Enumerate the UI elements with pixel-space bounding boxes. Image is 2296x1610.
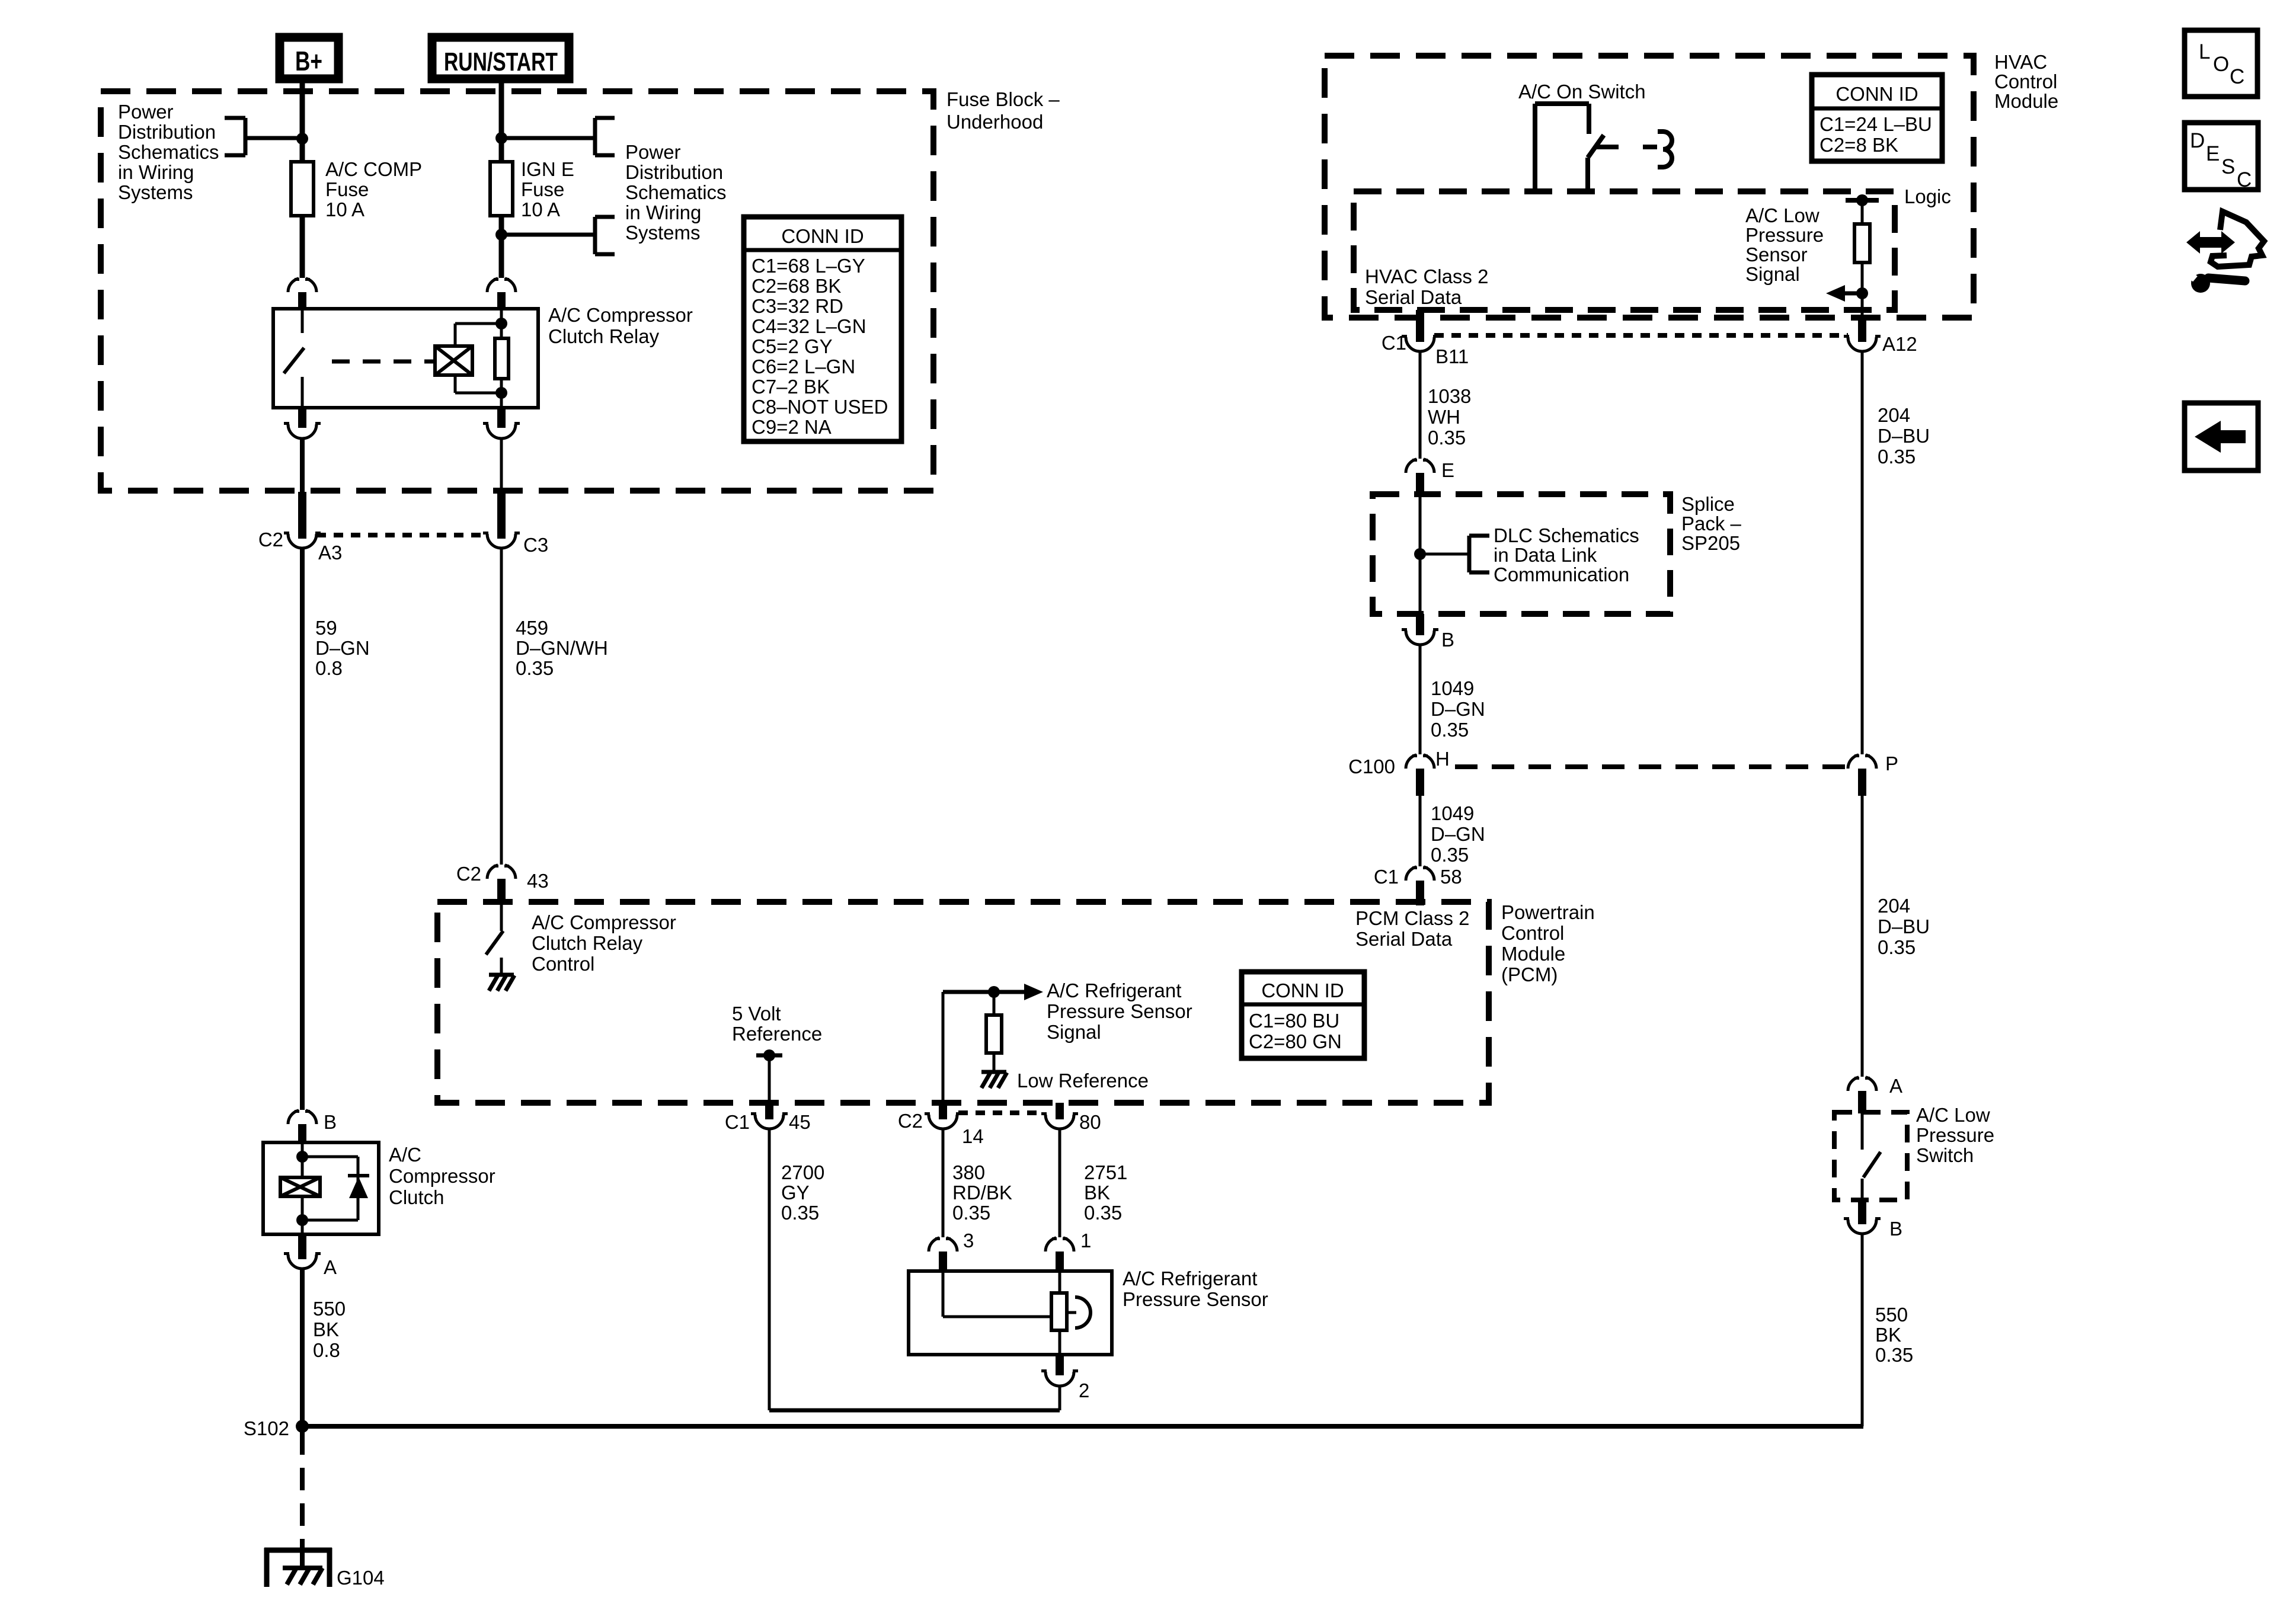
svg-text:C1: C1 [725, 1111, 750, 1133]
svg-text:Pack –: Pack – [1681, 513, 1742, 534]
svg-text:Fuse Block –: Fuse Block – [946, 88, 1060, 110]
svg-text:C1: C1 [1374, 866, 1399, 888]
svg-text:Pressure: Pressure [1745, 224, 1824, 246]
svg-text:B: B [1441, 629, 1454, 651]
svg-text:C2=80 GN: C2=80 GN [1249, 1030, 1342, 1052]
svg-text:S: S [2221, 155, 2235, 178]
svg-text:Clutch: Clutch [389, 1186, 445, 1208]
svg-text:380: 380 [952, 1161, 985, 1183]
svg-text:(PCM): (PCM) [1501, 964, 1558, 985]
svg-text:0.35: 0.35 [1878, 446, 1916, 468]
svg-text:0.8: 0.8 [313, 1339, 340, 1361]
svg-text:A/C Low: A/C Low [1745, 204, 1819, 226]
svg-text:550: 550 [313, 1298, 346, 1320]
svg-text:Schematics: Schematics [118, 141, 219, 163]
svg-text:Splice: Splice [1681, 493, 1735, 515]
svg-text:C8–NOT USED: C8–NOT USED [752, 396, 888, 418]
svg-text:10 A: 10 A [325, 199, 364, 220]
svg-text:204: 204 [1878, 895, 1910, 917]
svg-text:C: C [2237, 168, 2252, 191]
svg-text:A/C On Switch: A/C On Switch [1518, 81, 1646, 103]
svg-text:C2=8 BK: C2=8 BK [1819, 134, 1898, 156]
svg-text:A/C Refrigerant: A/C Refrigerant [1123, 1267, 1257, 1289]
svg-text:Module: Module [1501, 943, 1565, 965]
svg-text:Fuse: Fuse [521, 178, 564, 200]
svg-text:2700: 2700 [781, 1161, 824, 1183]
svg-text:A/C Compressor: A/C Compressor [532, 911, 676, 933]
svg-text:Distribution: Distribution [625, 161, 723, 183]
svg-text:A/C Low: A/C Low [1916, 1104, 1990, 1126]
svg-text:D–GN/WH: D–GN/WH [516, 637, 608, 659]
svg-text:10 A: 10 A [521, 199, 560, 220]
svg-text:B11: B11 [1435, 345, 1469, 367]
svg-text:Schematics: Schematics [625, 181, 727, 203]
svg-text:C3: C3 [523, 534, 548, 556]
svg-text:Distribution: Distribution [118, 121, 216, 143]
svg-text:Switch: Switch [1916, 1144, 1974, 1166]
svg-text:0.8: 0.8 [315, 657, 343, 679]
svg-text:G104: G104 [337, 1567, 385, 1589]
svg-text:SP205: SP205 [1681, 532, 1740, 554]
svg-text:Reference: Reference [732, 1023, 822, 1045]
svg-text:C2: C2 [258, 529, 283, 550]
svg-text:0.35: 0.35 [1875, 1344, 1913, 1366]
svg-text:Fuse: Fuse [325, 178, 369, 200]
svg-text:0.35: 0.35 [1431, 719, 1469, 741]
svg-text:0.35: 0.35 [1428, 427, 1466, 449]
svg-text:H: H [1435, 748, 1450, 770]
svg-text:C6=2 L–GN: C6=2 L–GN [752, 356, 855, 377]
svg-text:Clutch Relay: Clutch Relay [548, 325, 660, 347]
svg-text:550: 550 [1875, 1304, 1908, 1326]
svg-text:Powertrain: Powertrain [1501, 901, 1595, 923]
svg-text:D–GN: D–GN [315, 637, 370, 659]
svg-text:WH: WH [1428, 406, 1460, 428]
svg-text:B: B [324, 1111, 337, 1133]
svg-text:Clutch Relay: Clutch Relay [532, 932, 643, 954]
svg-text:459: 459 [516, 617, 548, 639]
svg-text:in Data Link: in Data Link [1494, 544, 1597, 566]
svg-text:1049: 1049 [1431, 677, 1474, 699]
svg-text:A/C: A/C [389, 1144, 421, 1166]
svg-text:E: E [2206, 142, 2220, 165]
svg-text:Communication: Communication [1494, 564, 1629, 585]
svg-text:A12: A12 [1882, 333, 1917, 355]
svg-text:1038: 1038 [1428, 385, 1471, 407]
svg-text:1: 1 [1080, 1230, 1091, 1251]
svg-text:PCM Class 2: PCM Class 2 [1355, 907, 1470, 929]
svg-text:Power: Power [118, 101, 174, 123]
svg-text:58: 58 [1440, 866, 1462, 888]
svg-text:C2=68 BK: C2=68 BK [752, 275, 841, 297]
svg-text:CONN ID: CONN ID [1261, 980, 1344, 1001]
svg-text:P: P [1885, 753, 1898, 774]
svg-text:in Wiring: in Wiring [625, 201, 701, 223]
svg-text:0.35: 0.35 [1431, 844, 1469, 866]
svg-text:Systems: Systems [625, 222, 701, 244]
svg-text:D: D [2190, 129, 2205, 152]
svg-text:D–BU: D–BU [1878, 916, 1930, 937]
svg-text:O: O [2213, 53, 2229, 76]
svg-text:2: 2 [1079, 1379, 1089, 1401]
svg-text:CONN ID: CONN ID [781, 225, 864, 247]
svg-text:D–GN: D–GN [1431, 823, 1485, 845]
svg-text:IGN E: IGN E [521, 158, 574, 180]
svg-text:A: A [324, 1256, 337, 1278]
svg-text:in Wiring: in Wiring [118, 161, 194, 183]
svg-text:C1=24 L–BU: C1=24 L–BU [1819, 113, 1932, 135]
svg-text:RUN/START: RUN/START [444, 47, 558, 76]
svg-text:HVAC Class 2: HVAC Class 2 [1365, 265, 1488, 287]
svg-text:Logic: Logic [1904, 185, 1951, 207]
svg-text:204: 204 [1878, 404, 1910, 426]
svg-text:C2: C2 [898, 1110, 923, 1132]
svg-text:B: B [1889, 1218, 1902, 1240]
svg-text:GY: GY [781, 1182, 810, 1204]
svg-text:Pressure Sensor: Pressure Sensor [1047, 1000, 1192, 1022]
svg-text:D–BU: D–BU [1878, 425, 1930, 447]
svg-text:80: 80 [1079, 1111, 1101, 1133]
svg-text:Serial Data: Serial Data [1365, 286, 1462, 308]
svg-text:Systems: Systems [118, 181, 193, 203]
svg-text:59: 59 [315, 617, 337, 639]
svg-text:2751: 2751 [1084, 1161, 1127, 1183]
svg-text:C1=68 L–GY: C1=68 L–GY [752, 255, 865, 277]
svg-text:Pressure: Pressure [1916, 1124, 1994, 1146]
svg-text:Signal: Signal [1047, 1021, 1101, 1043]
svg-text:C4=32 L–GN: C4=32 L–GN [752, 315, 866, 337]
svg-text:C3=32 RD: C3=32 RD [752, 295, 843, 317]
svg-text:0.35: 0.35 [1878, 936, 1916, 958]
svg-text:L: L [2199, 40, 2210, 63]
svg-text:C1=80 BU: C1=80 BU [1249, 1010, 1339, 1032]
svg-text:S102: S102 [244, 1417, 289, 1439]
svg-text:C100: C100 [1348, 756, 1395, 777]
svg-text:C: C [2230, 65, 2244, 88]
svg-text:Sensor: Sensor [1745, 244, 1808, 265]
svg-text:Serial Data: Serial Data [1355, 928, 1453, 950]
svg-text:14: 14 [962, 1125, 984, 1147]
svg-text:Pressure Sensor: Pressure Sensor [1123, 1288, 1268, 1310]
svg-text:A/C Compressor: A/C Compressor [548, 304, 693, 326]
svg-text:BK: BK [1875, 1324, 1901, 1346]
svg-text:C1: C1 [1382, 332, 1406, 354]
svg-text:Power: Power [625, 141, 681, 163]
svg-text:B+: B+ [295, 46, 322, 76]
svg-text:BK: BK [313, 1318, 339, 1340]
svg-text:0.35: 0.35 [516, 657, 554, 679]
svg-text:Control: Control [1501, 922, 1564, 944]
svg-text:1049: 1049 [1431, 802, 1474, 824]
svg-text:5 Volt: 5 Volt [732, 1003, 781, 1025]
svg-text:0.35: 0.35 [1084, 1202, 1122, 1224]
svg-text:RD/BK: RD/BK [952, 1182, 1012, 1204]
svg-text:A: A [1889, 1075, 1902, 1097]
svg-text:C2: C2 [456, 863, 481, 885]
svg-text:0.35: 0.35 [952, 1202, 990, 1224]
svg-text:Compressor: Compressor [389, 1165, 495, 1187]
svg-text:HVAC: HVAC [1994, 51, 2047, 73]
svg-text:43: 43 [527, 870, 549, 892]
svg-text:CONN ID: CONN ID [1835, 83, 1918, 105]
svg-text:A/C COMP: A/C COMP [325, 158, 422, 180]
svg-text:DLC Schematics: DLC Schematics [1494, 524, 1639, 546]
svg-text:Low Reference: Low Reference [1017, 1070, 1149, 1092]
svg-text:Control: Control [532, 953, 594, 975]
svg-text:C5=2 GY: C5=2 GY [752, 335, 833, 357]
svg-text:45: 45 [789, 1111, 811, 1133]
svg-text:Underhood: Underhood [946, 111, 1043, 133]
svg-text:Control: Control [1994, 71, 2057, 92]
svg-text:E: E [1441, 459, 1454, 481]
svg-text:BK: BK [1084, 1182, 1110, 1204]
svg-text:Module: Module [1994, 90, 2058, 112]
svg-text:C9=2 NA: C9=2 NA [752, 416, 832, 438]
svg-text:0.35: 0.35 [781, 1202, 819, 1224]
svg-text:C7–2 BK: C7–2 BK [752, 376, 830, 398]
svg-text:3: 3 [963, 1230, 974, 1251]
svg-text:D–GN: D–GN [1431, 698, 1485, 720]
svg-text:A3: A3 [318, 542, 342, 564]
svg-text:A/C Refrigerant: A/C Refrigerant [1047, 980, 1181, 1001]
svg-text:Signal: Signal [1745, 263, 1800, 285]
